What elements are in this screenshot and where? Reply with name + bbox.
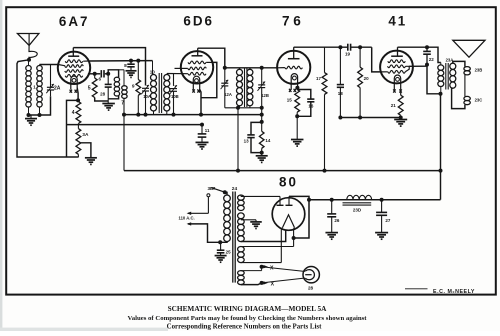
svg-text:4: 4 xyxy=(72,110,75,116)
wire IF2 top line xyxy=(225,67,277,69)
ground HV center tap xyxy=(250,221,262,223)
signature line xyxy=(405,288,428,290)
coil 23A primary xyxy=(440,63,442,65)
wire B+ riser xyxy=(440,94,442,200)
coil 23A secondary xyxy=(450,63,456,69)
pins 76 heater xyxy=(289,89,291,92)
node res9 tap xyxy=(136,59,140,63)
wire AC lead lower xyxy=(188,224,220,242)
coil 7 anode winding xyxy=(119,69,124,71)
svg-text:28: 28 xyxy=(100,91,106,96)
trimmer 12B xyxy=(261,68,263,85)
tube 76 envelope xyxy=(277,51,310,84)
coil 10 primary xyxy=(152,61,154,75)
wire 6A7 cathode lead xyxy=(76,88,79,101)
svg-text:8: 8 xyxy=(124,63,127,69)
resistor 15 xyxy=(295,90,300,113)
svg-text:Values of Component Parts may: Values of Component Parts may be found b… xyxy=(127,315,367,322)
wire antenna lead hook xyxy=(29,45,37,60)
ground cap 26 xyxy=(325,232,338,234)
capacitor 22 xyxy=(426,47,428,51)
ground 3A xyxy=(85,157,97,159)
ground 15-16 xyxy=(291,139,304,141)
wire 3A tap to ground xyxy=(81,143,91,158)
resistor 21 xyxy=(398,95,403,115)
tube 41 plate xyxy=(391,55,403,57)
coil 10 secondary xyxy=(164,75,170,81)
core IF1 xyxy=(158,73,160,113)
tube 6D6 plate xyxy=(192,55,203,57)
speaker cone xyxy=(453,40,485,57)
wire line L2 AVC xyxy=(67,124,203,126)
svg-text:41: 41 xyxy=(388,13,407,28)
resistor 14 xyxy=(261,122,263,131)
capacitor 16 xyxy=(297,90,311,100)
coil 2 xyxy=(37,66,42,71)
ground cap 8 xyxy=(126,70,137,72)
capacitor 26 xyxy=(331,200,333,214)
wire secondary to voice coil xyxy=(453,61,465,66)
wire antenna down-lead xyxy=(17,60,79,157)
svg-text:23C: 23C xyxy=(475,98,483,103)
node antenna junction xyxy=(27,58,31,62)
pins 6A7 heater xyxy=(70,90,72,93)
svg-text:X: X xyxy=(271,282,275,288)
wire grid return line xyxy=(340,117,400,119)
wire line L1 xyxy=(124,114,262,116)
ground cap 27 xyxy=(375,232,388,234)
coil 24 filament winding A xyxy=(238,247,245,252)
capacitor 25 xyxy=(220,242,222,250)
svg-text:23D: 23D xyxy=(353,208,362,213)
node bias top xyxy=(260,120,264,124)
coil 12 primary xyxy=(239,68,241,70)
wire 6A7 plate to IF1 xyxy=(73,48,145,86)
tube 76 plate xyxy=(288,58,300,60)
trimmer 10A xyxy=(142,87,149,89)
resistor 4 xyxy=(76,102,81,124)
svg-text:10A: 10A xyxy=(143,94,151,99)
wire 41 screen lead xyxy=(409,65,427,67)
wire screen line xyxy=(90,60,153,62)
wire HV bottom to 80 xyxy=(241,230,286,242)
svg-text:13: 13 xyxy=(244,138,250,143)
svg-text:18: 18 xyxy=(338,91,344,96)
node osc coil top xyxy=(106,72,110,76)
coil 23B voice coil xyxy=(464,67,470,71)
svg-text:27: 27 xyxy=(385,218,391,223)
tube 76 cathode xyxy=(291,74,297,90)
node cap8 tap xyxy=(129,59,133,63)
node osc grid xyxy=(93,72,97,76)
tube 41 grids xyxy=(388,60,406,63)
tube 41 grid bracket xyxy=(405,66,409,72)
coil 24 filament winding B xyxy=(238,271,245,276)
switch 3B xyxy=(223,190,227,194)
svg-text:19: 19 xyxy=(345,52,351,57)
tube 6D6 cathode xyxy=(193,76,199,92)
wire 41 grid lead xyxy=(372,47,381,72)
resistor 17 xyxy=(324,47,326,72)
capacitor 19 xyxy=(347,44,349,51)
svg-text:26: 26 xyxy=(334,218,340,223)
ground oscillator xyxy=(102,103,115,105)
tube 6D6 grids xyxy=(188,61,206,64)
wire coil7 to bus xyxy=(123,98,125,170)
svg-text:3B: 3B xyxy=(208,186,215,191)
node coil bottoms xyxy=(27,113,31,117)
core IF2 xyxy=(244,69,246,108)
tube 6A7 grids xyxy=(65,60,83,63)
wire 76 plate line xyxy=(294,46,348,48)
tube 6D6 grid stubs xyxy=(175,67,188,69)
capacitor 13 xyxy=(251,122,262,134)
svg-text:10B: 10B xyxy=(171,94,179,99)
arrow X2 xyxy=(262,282,266,284)
svg-text:28: 28 xyxy=(308,285,314,290)
wire IF2 bottom line xyxy=(225,107,262,109)
node cap 25 xyxy=(218,240,222,244)
tube 80 filament xyxy=(283,215,295,228)
coil 24 HV secondary xyxy=(238,213,245,219)
tube 41 cathode xyxy=(394,75,400,90)
trimmer 2A xyxy=(50,65,52,88)
svg-text:80: 80 xyxy=(279,174,298,189)
svg-text:5: 5 xyxy=(88,85,91,91)
antenna xyxy=(17,34,39,46)
capacitor 6 xyxy=(95,73,101,75)
wire 80 left plate feed xyxy=(241,195,280,197)
resistor 5 xyxy=(94,74,96,78)
resistor 9 xyxy=(137,61,139,80)
svg-text:25: 25 xyxy=(226,249,232,254)
svg-text:9: 9 xyxy=(132,84,135,90)
pins 41 heater xyxy=(393,89,395,92)
resistor 20 xyxy=(359,47,361,67)
node output primary bottom xyxy=(439,92,443,96)
wire B+ filter line xyxy=(309,199,441,201)
ground 13-14 xyxy=(256,155,268,157)
wire cathode return box xyxy=(67,100,79,157)
capacitor 27 xyxy=(381,200,383,213)
coil 12 secondary xyxy=(249,68,251,70)
coil 1 xyxy=(26,66,31,71)
svg-text:24: 24 xyxy=(232,186,238,192)
svg-text:Corresponding Reference Number: Corresponding Reference Numbers on the P… xyxy=(167,324,322,331)
coil 24 rectifier filament winding xyxy=(238,195,245,200)
trimmer 10B xyxy=(173,74,175,86)
wire lamp leads xyxy=(262,267,304,272)
svg-text:110 A.C.: 110 A.C. xyxy=(179,216,195,221)
wire B+ bus xyxy=(124,170,441,172)
svg-text:22: 22 xyxy=(429,57,435,62)
capacitor 8 xyxy=(130,61,132,65)
coil 23C hum coil xyxy=(464,96,470,100)
wire B+ takeoff xyxy=(308,196,310,238)
tube 6A7 envelope xyxy=(58,52,90,84)
tube 80 envelope xyxy=(272,198,305,231)
ground 41 cathode xyxy=(394,119,407,121)
wire hum coil return xyxy=(452,88,465,108)
svg-text:6D6: 6D6 xyxy=(183,14,214,29)
ground cap 25 xyxy=(215,255,227,257)
node 6A7 cathode junction xyxy=(76,98,80,102)
node 12B top xyxy=(260,66,264,70)
node filament X tap 1 xyxy=(260,265,264,269)
svg-text:12A: 12A xyxy=(224,92,232,97)
svg-text:2A: 2A xyxy=(54,85,61,91)
wire osc box xyxy=(108,70,118,77)
wire 41 cathode lead xyxy=(400,90,402,96)
wire IF2 to bus xyxy=(237,108,239,171)
svg-text:16: 16 xyxy=(308,104,314,109)
tube 6A7 cathode xyxy=(71,76,77,89)
coil 24 primary xyxy=(225,192,227,195)
wire 80 filament right leg xyxy=(293,227,296,229)
svg-text:15: 15 xyxy=(287,97,293,102)
svg-text:11: 11 xyxy=(205,128,210,133)
svg-text:SCHEMATIC WIRING DIAGRAM—MOD: SCHEMATIC WIRING DIAGRAM—MODEL 5A xyxy=(168,304,328,313)
core power transformer xyxy=(232,192,234,283)
wire coil bottom tie xyxy=(29,96,51,115)
scan edge bottom xyxy=(0,328,168,331)
wire grid line 6A7 xyxy=(40,64,59,66)
tube 6A7 grid stubs xyxy=(58,65,65,66)
ground cap 11 xyxy=(196,141,209,143)
arrow X1 xyxy=(262,266,266,268)
trimmer 12A xyxy=(224,68,226,83)
tube 80 plates xyxy=(277,204,284,206)
wire HV center tap xyxy=(241,219,256,221)
svg-text:12B: 12B xyxy=(261,93,269,98)
wire 6D6 suppressor loop xyxy=(201,62,217,97)
coil 7 grid winding xyxy=(114,77,119,82)
wire filament winding A leads xyxy=(241,246,294,248)
pilot lamp 28 xyxy=(303,267,319,283)
resistor 3A xyxy=(76,129,81,155)
wire screen to output xyxy=(427,66,441,94)
core output transformer xyxy=(445,63,447,90)
svg-text:3A: 3A xyxy=(82,132,89,138)
capacitor 11 xyxy=(200,123,204,127)
svg-text:21: 21 xyxy=(391,103,397,108)
wire 76 cathode lead xyxy=(296,88,298,90)
wire AC lead upper xyxy=(188,212,208,214)
svg-text:6A7: 6A7 xyxy=(59,14,90,29)
wire 76 cathode to ground xyxy=(296,116,298,139)
wire 80 filament left leg xyxy=(281,227,282,229)
wire voice coil to hum coil xyxy=(464,75,466,97)
tube 6A7 plate xyxy=(68,55,79,57)
capacitor 18 xyxy=(339,47,341,84)
wire 41 plate line xyxy=(398,47,441,62)
svg-text:14: 14 xyxy=(265,138,271,143)
choke 23D xyxy=(347,195,372,199)
svg-text:20: 20 xyxy=(364,76,370,81)
tube 6D6 envelope xyxy=(181,51,213,83)
scan edge left xyxy=(0,0,2,331)
node filament X tap 2 xyxy=(260,281,264,285)
capacitor 28 xyxy=(107,74,109,85)
tube 76 grid xyxy=(285,66,303,69)
node IF2 primary top xyxy=(223,66,227,70)
svg-text:23B: 23B xyxy=(475,68,483,73)
wire 80 right plate loop xyxy=(289,196,309,238)
svg-text:10: 10 xyxy=(150,69,156,74)
svg-text:1: 1 xyxy=(33,85,36,90)
wire 6D6 cathode lead xyxy=(200,89,201,114)
pins 6D6 heater xyxy=(192,89,194,92)
ground input coils xyxy=(30,115,32,119)
svg-text:17: 17 xyxy=(316,76,322,81)
tube 41 envelope xyxy=(380,51,413,84)
wire 6D6 plate to IF2 xyxy=(198,48,225,68)
svg-text:76: 76 xyxy=(282,14,304,29)
